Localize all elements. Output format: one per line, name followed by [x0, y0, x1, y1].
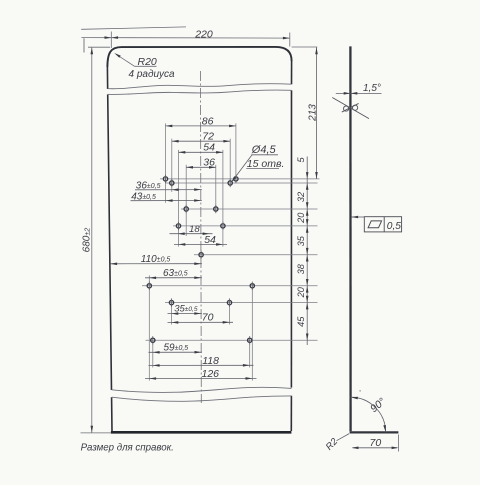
- dimension 70 (row G hole spacing): [168, 312, 234, 324]
- chain arrow up to row B: [306, 183, 309, 190]
- svg-text:86: 86: [202, 115, 214, 127]
- upper break line (wavy pair): [108, 84, 292, 95]
- svg-text:110±0,5: 110±0,5: [141, 254, 171, 265]
- svg-text:20: 20: [296, 286, 306, 298]
- side view: bent sheet profile (vertical web + bottom flange): [350, 46, 399, 432]
- svg-text:126: 126: [202, 368, 220, 380]
- ext line col D-left (54 dims): [178, 150, 180, 247]
- svg-text:70: 70: [202, 312, 214, 324]
- hole C-left &#216;4,5: [184, 205, 188, 213]
- hole A-left &#216;4,5: [163, 175, 167, 183]
- dimension 213 (top edge to hole row A): [308, 47, 319, 179]
- svg-text:1,5°: 1,5°: [363, 83, 381, 94]
- chain dimension text 20: [296, 212, 306, 224]
- ext line col B-right (72 dim): [229, 139, 231, 187]
- svg-text:5: 5: [296, 156, 306, 162]
- svg-text:59±0,5: 59±0,5: [164, 343, 189, 354]
- ext line from plate top edge to 213 dimension: [292, 46, 318, 48]
- dimension 70 (flange width): [352, 435, 399, 452]
- dimension 1,5&#176; (web draft angle): [336, 83, 382, 95]
- hole B-left &#216;4,5: [170, 179, 174, 187]
- svg-text:32: 32: [296, 192, 306, 202]
- dimension 680&#177;2 (plate height): [81, 47, 112, 433]
- ext line col G-left (35 &amp; 70 dims): [171, 304, 173, 324]
- svg-text:36±0,5: 36±0,5: [136, 181, 161, 192]
- ext line col A-left (86 &amp; 43 dims): [165, 123, 167, 202]
- dimension 63&#177;0,5 (col F-left to centerline): [145, 268, 202, 279]
- svg-text:54: 54: [204, 234, 216, 246]
- dimension 220 (plate width): [81, 28, 289, 52]
- ext line col G-right (70 dim): [229, 304, 231, 324]
- dimension 36 (row C hole spacing): [186, 157, 216, 169]
- hole F-left &#216;4,5: [147, 282, 151, 290]
- ext line col B-left (72 &amp; 36 dims): [171, 139, 173, 192]
- svg-text:35: 35: [296, 235, 306, 246]
- hole H-right &#216;4,5: [248, 336, 252, 344]
- chain arrow down to row A (dim 5): [306, 172, 309, 179]
- hole E-center &#216;4,5: [199, 251, 203, 259]
- svg-text:43±0,5: 43±0,5: [131, 192, 156, 203]
- dimension 36&#177;0,5 (col B-left to centerline): [135, 181, 202, 192]
- label R20 / 4 radii with leader to corner: [114, 53, 175, 80]
- chain dimension text 32: [296, 192, 306, 202]
- svg-text:0,5: 0,5: [387, 221, 401, 232]
- dimension 126 (row F hole spacing): [145, 368, 257, 380]
- ext line col F-left (63 dim): [148, 275, 150, 284]
- dimension 35&#177;0,5 (col G-left to centerline): [168, 303, 202, 315]
- hole row D centerline extended to right dimension chain: [173, 225, 318, 227]
- dimension 18 (col C-left to centerline): [170, 224, 213, 235]
- svg-text:38: 38: [296, 263, 306, 274]
- svg-text:213: 213: [308, 104, 319, 122]
- ext line col C-left (36 &amp; 18 dims): [185, 165, 187, 236]
- svg-text:18: 18: [189, 224, 200, 235]
- hole callout &#216;4,5 / 15 holes with leader: [231, 144, 284, 182]
- hole G-right &#216;4,5: [227, 298, 231, 306]
- ext line col H-left (59 &amp; 118 dims): [152, 342, 154, 367]
- ext line col F-right lower (126 dim): [251, 288, 253, 381]
- svg-text:Ø4,5: Ø4,5: [251, 144, 277, 156]
- flatness tolerance frame 0,5 with leader to web: [351, 216, 401, 232]
- hole G-left &#216;4,5: [169, 298, 173, 306]
- ext line col D-right (54 dims): [222, 150, 224, 247]
- chain dimension text 20: [296, 286, 306, 298]
- dimension 72 (row B hole spacing): [172, 131, 230, 143]
- hole row A centerline extended to right dimension chain: [160, 178, 320, 180]
- dimension 59&#177;0,5 (col H-left to centerline): [149, 343, 202, 354]
- chain arrow pair at row G: [306, 296, 309, 310]
- chain arrow pair at row F: [306, 279, 309, 293]
- hole C-right &#216;4,5: [214, 205, 218, 213]
- ext line col F-left lower (126 dim): [148, 288, 150, 381]
- chain dimension text 35: [296, 235, 306, 246]
- ext line col H-right (118 dim): [249, 342, 251, 367]
- svg-text:70: 70: [370, 437, 382, 449]
- right dimension chain line: [306, 157, 308, 346]
- vertical centerline of plate (dash-dot): [200, 71, 203, 403]
- lower break line (wavy pair): [112, 387, 292, 401]
- angle dimension 90&#176; between web and flange: [351, 390, 389, 432]
- hole row E centerline extended to right dimension chain: [194, 254, 318, 256]
- dimension 43&#177;0,5 (col A-left to centerline): [131, 192, 202, 203]
- hole row G centerline extended to right dimension chain: [165, 302, 318, 304]
- hole row H centerline extended to right dimension chain: [146, 339, 318, 341]
- svg-text:36: 36: [203, 157, 215, 169]
- hole row C centerline extended to right dimension chain: [181, 208, 318, 210]
- svg-text:Размер для справок.: Размер для справок.: [81, 442, 174, 453]
- chain arrow pair at row C: [306, 202, 309, 216]
- hole row B centerline extended to right dimension chain: [165, 182, 318, 184]
- chain arrow pair at row E: [306, 248, 309, 262]
- hole row F centerline extended to right dimension chain: [142, 285, 318, 287]
- chain arrow down to row H (dim 45): [306, 334, 309, 341]
- hole H-left &#216;4,5: [151, 336, 155, 344]
- dimension 54 (row D hole spacing, upper): [179, 142, 223, 154]
- hole D-right &#216;4,5: [221, 222, 225, 230]
- hole D-left &#216;4,5: [176, 222, 180, 230]
- ext line col C-right (36 dim): [215, 165, 217, 213]
- surface mark symbol on web (crossed lines with two loops): [332, 98, 369, 119]
- plate outline (main front view, 220x680 panel): [107, 47, 291, 432]
- chain dimension text 5: [296, 156, 306, 162]
- dimension 86 (row A hole spacing): [166, 115, 236, 127]
- ext line col A-right (86 dim): [235, 123, 237, 182]
- svg-text:680±2: 680±2: [82, 228, 93, 253]
- stray upper line over 220 dimension: [81, 27, 186, 29]
- svg-text:35±0,5: 35±0,5: [174, 303, 198, 314]
- svg-text:220: 220: [194, 28, 213, 40]
- dimension 54 (row D spacing, lower): [174, 234, 227, 246]
- svg-text:4 радиуса: 4 радиуса: [129, 69, 176, 80]
- note: &#1056;&#1072;&#1079;&#1084;&#1077;&#1088; &#1076;&#1083;&#1103; &#1089;&#1087;&#1088;&#1072;&#1074;&#1086;&#1082; (size for reference): [81, 442, 174, 453]
- hole B-right &#216;4,5: [228, 179, 232, 187]
- svg-text:20: 20: [296, 212, 306, 224]
- hole F-right &#216;4,5: [250, 282, 254, 290]
- dimension 118 (row H hole spacing): [149, 355, 254, 367]
- hole A-right &#216;4,5: [234, 175, 238, 183]
- svg-text:45: 45: [296, 316, 306, 327]
- svg-text:54: 54: [203, 142, 215, 154]
- svg-text:118: 118: [202, 355, 219, 367]
- chain arrow pair at row D: [306, 219, 309, 233]
- chain dimension text 45: [296, 316, 306, 327]
- chain dimension text 38: [296, 263, 306, 274]
- label R2 (bend radius) with leader: [324, 434, 349, 453]
- dimension 110&#177;0,5 (plate edge to centerline): [110, 254, 202, 265]
- svg-text:63±0,5: 63±0,5: [163, 268, 188, 279]
